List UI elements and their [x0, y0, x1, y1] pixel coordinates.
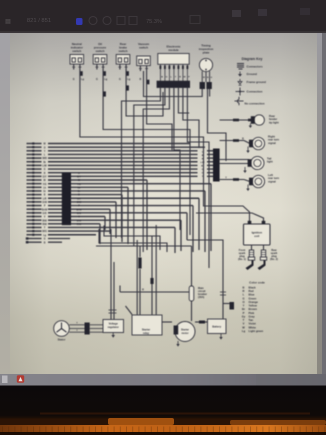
timing plate drops [208, 89, 227, 161]
svg-text:plate: plate [203, 50, 210, 54]
svg-text:motor: motor [181, 332, 188, 335]
svg-text:relay: relay [143, 331, 150, 335]
svg-text:Bl: Bl [78, 180, 81, 182]
starter relay [126, 306, 173, 335]
svg-text:B: B [140, 78, 142, 81]
oil pressure switch [93, 42, 107, 81]
front spark plug [238, 245, 255, 270]
svg-text:Light green: Light green [249, 329, 264, 333]
svg-text:G/O: G/O [77, 213, 81, 215]
svg-text:G: G [96, 78, 98, 81]
svg-text:Connectors: Connectors [247, 65, 263, 69]
wire relay feed 2 [150, 225, 156, 315]
rear brake switch [116, 42, 130, 81]
svg-text:Stator: Stator [58, 338, 66, 342]
svg-text:Y/G: Y/G [43, 184, 47, 186]
wire regulator feed [109, 229, 117, 320]
svg-text:Ground: Ground [247, 72, 258, 76]
wire to ignition coil 1 [204, 152, 250, 221]
harness lower staircase [99, 226, 167, 253]
keyboard glow strip [0, 418, 326, 435]
svg-text:switch: switch [72, 49, 81, 53]
svg-text:(30A): (30A) [198, 296, 204, 299]
svg-text:Violet: Violet [249, 322, 256, 326]
svg-text:Lg: Lg [242, 329, 246, 333]
svg-text:821 / 851: 821 / 851 [27, 18, 51, 24]
svg-text:module: module [168, 48, 179, 52]
wire breaker branch [120, 286, 189, 293]
svg-text:B: B [243, 286, 245, 290]
svg-text:Gr: Gr [78, 191, 81, 193]
wire to ignition coil 2 [196, 213, 264, 221]
svg-text:O: O [44, 147, 46, 149]
svg-text:L/R: L/R [77, 198, 81, 200]
bezel reflection [40, 413, 310, 415]
key gaps [2, 427, 325, 433]
electronic control module U1 [157, 45, 191, 88]
white diagram page [10, 26, 326, 379]
wire rear brake switch run [126, 70, 163, 117]
svg-text:W/G: W/G [42, 231, 47, 233]
svg-text:G/Y: G/Y [43, 176, 47, 178]
rear sub-harness connector [200, 149, 219, 182]
vacuum switch [137, 42, 151, 84]
wire color code legend [242, 281, 265, 333]
svg-text:light: light [267, 160, 273, 164]
wire relay feed with main fuse [137, 240, 141, 315]
svg-text:signal: signal [268, 179, 276, 183]
svg-text:Color code: Color code [249, 281, 265, 285]
wire oil switch run [103, 70, 190, 236]
svg-text:Tan: Tan [249, 318, 254, 322]
svg-text:Green: Green [249, 296, 257, 300]
svg-text:R: R [243, 289, 245, 293]
tail light [220, 156, 273, 173]
svg-text:Battery: Battery [212, 325, 221, 329]
svg-text:switch: switch [139, 45, 148, 49]
svg-text:Gr: Gr [43, 191, 46, 193]
svg-text:Bl: Bl [43, 180, 46, 182]
svg-text:Blue: Blue [249, 293, 255, 297]
module harness drops [122, 88, 210, 268]
svg-text:No connection: No connection [245, 102, 265, 106]
svg-text:V: V [243, 322, 245, 326]
svg-text:Frame ground: Frame ground [247, 80, 267, 84]
svg-text:G: G [44, 239, 46, 241]
wire neutral switch to ignition area [80, 70, 204, 153]
svg-text:G: G [44, 169, 46, 171]
left rear turn signal [220, 173, 280, 191]
svg-text:W: W [203, 77, 205, 79]
svg-text:Diagram Key: Diagram Key [242, 57, 263, 61]
svg-text:P: P [243, 311, 245, 315]
battery [187, 240, 234, 340]
svg-text:W: W [242, 325, 245, 329]
right rear turn signal [220, 135, 280, 154]
svg-text:(No. 2): (No. 2) [270, 258, 278, 261]
svg-text:G/O: G/O [42, 213, 46, 215]
voltage regulator [103, 320, 124, 338]
svg-text:Yellow: Yellow [249, 304, 258, 308]
svg-text:Red: Red [249, 289, 254, 293]
svg-text:Black: Black [249, 286, 257, 290]
svg-text:Br/W: Br/W [76, 209, 82, 211]
svg-text:G: G [166, 77, 168, 79]
left wiring harness rows [27, 142, 214, 253]
svg-text:Brown: Brown [249, 307, 258, 311]
svg-text:75.3%: 75.3% [146, 19, 162, 25]
timing inspection plate [199, 44, 214, 90]
svg-text:Gy: Gy [242, 314, 246, 318]
svg-text:White: White [249, 325, 257, 329]
svg-text:G: G [119, 78, 121, 81]
rear spark plug [258, 245, 279, 270]
main circuit breaker [96, 246, 207, 321]
svg-text:R: R [142, 289, 144, 292]
short stub wires below band [26, 237, 70, 244]
stator alternator [54, 321, 103, 342]
starter motor [174, 322, 195, 347]
svg-text:coil: coil [254, 234, 259, 238]
wire vacuum switch run [147, 71, 172, 150]
svg-text:(No. 1): (No. 1) [238, 258, 246, 261]
main harness connector block [62, 173, 71, 225]
svg-text:G: G [73, 78, 75, 81]
svg-text:G/Y: G/Y [77, 176, 81, 178]
svg-text:Y/G: Y/G [77, 184, 81, 186]
neutral indicator switch [70, 42, 84, 81]
wire vacuum to timing plate [144, 71, 203, 97]
svg-text:tip light: tip light [269, 120, 279, 124]
svg-text:switch: switch [96, 49, 105, 53]
svg-text:Y: Y [243, 304, 245, 308]
ignition coil [244, 221, 271, 245]
svg-text:Gray: Gray [249, 314, 256, 318]
svg-text:Br: Br [242, 307, 245, 311]
svg-text:O: O [242, 300, 244, 304]
svg-text:Br: Br [43, 162, 46, 164]
rear fender tip light [220, 114, 279, 128]
taskbar [0, 374, 326, 386]
svg-text:W/B: W/B [42, 158, 47, 160]
svg-text:switch: switch [119, 49, 128, 53]
svg-text:Connection: Connection [247, 90, 263, 94]
svg-text:▤: ▤ [5, 19, 11, 25]
svg-text:Br/W: Br/W [42, 209, 48, 211]
laptop bezel [0, 386, 326, 420]
diagram key legend [235, 57, 267, 106]
svg-text:signal: signal [268, 141, 276, 145]
pdf viewer toolbar [0, 0, 326, 33]
svg-text:L/R: L/R [43, 198, 47, 200]
svg-text:regulator: regulator [108, 325, 119, 329]
svg-text:G: G [242, 296, 244, 300]
svg-text:Pink: Pink [249, 311, 255, 315]
svg-text:Orange: Orange [249, 300, 259, 304]
